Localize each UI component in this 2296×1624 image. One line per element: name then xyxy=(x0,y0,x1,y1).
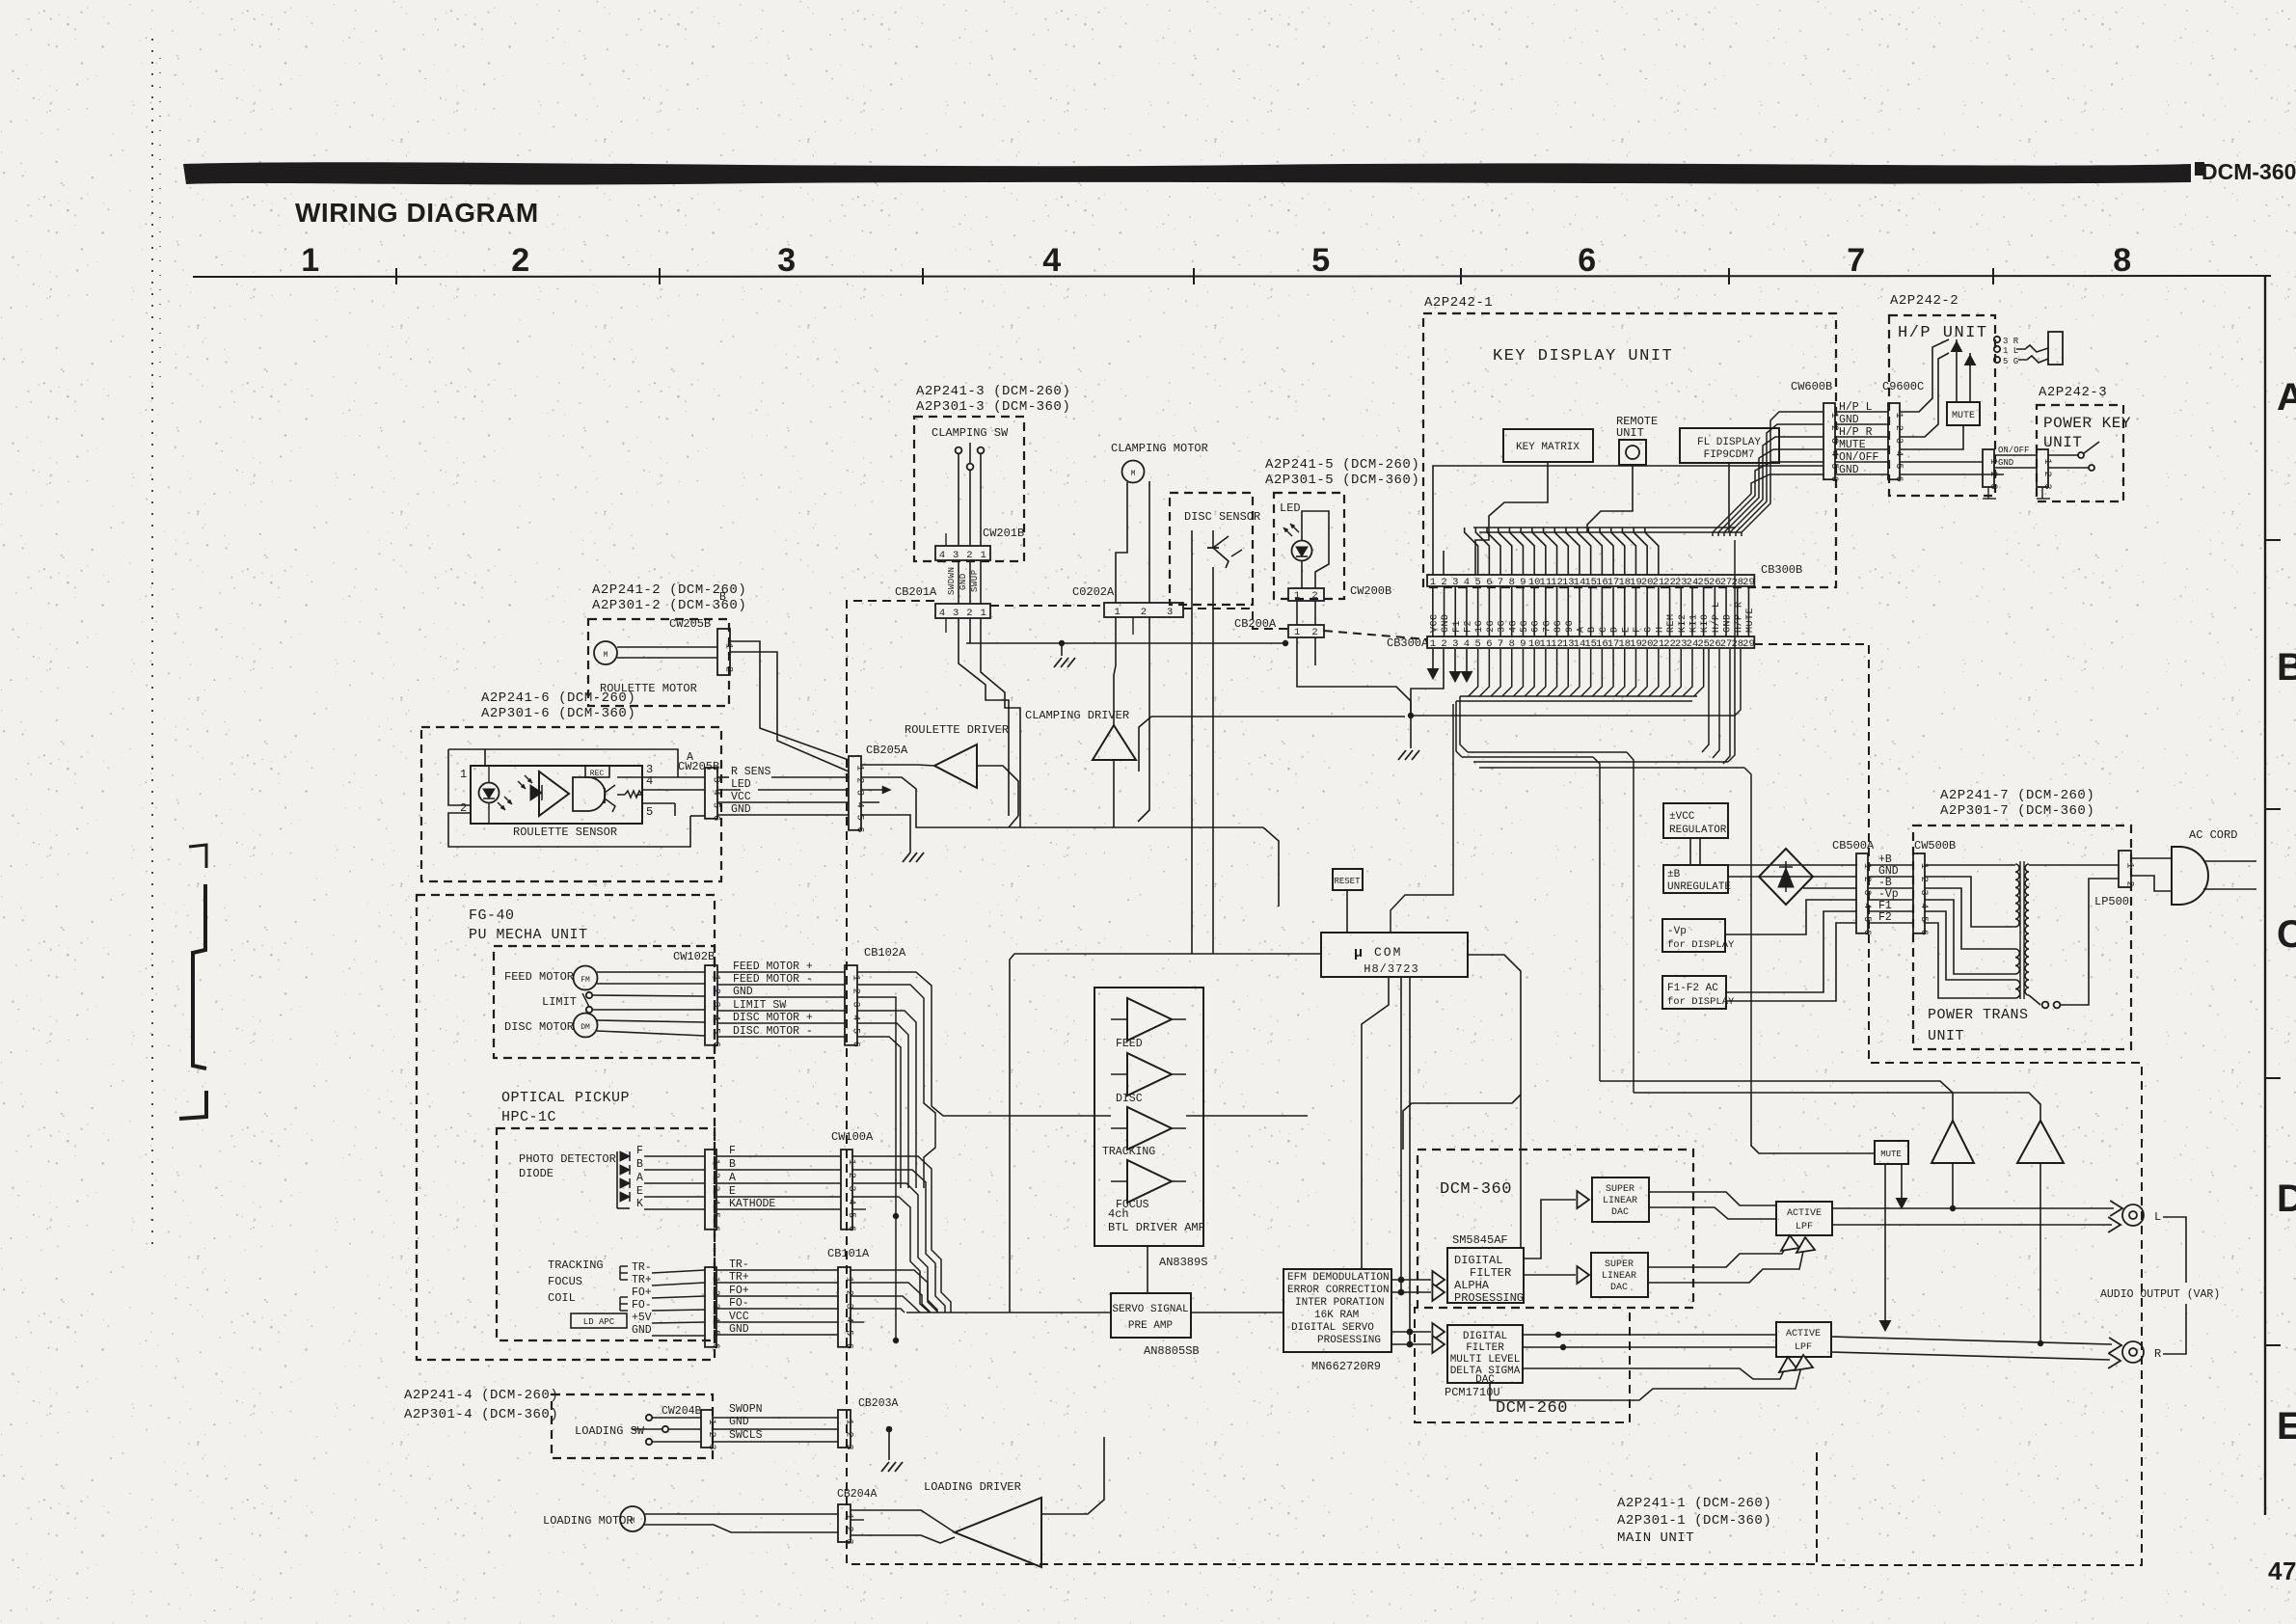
wires delta dac to LPF2 xyxy=(1523,1334,1776,1336)
svg-text:2: 2 xyxy=(1141,607,1147,618)
wires loading driver xyxy=(851,1510,955,1532)
wires CW100A right staircase xyxy=(852,1156,951,1313)
wire mute row to mute block xyxy=(1900,425,1963,449)
svg-text:CW205B: CW205B xyxy=(669,617,711,631)
svg-text:4G: 4G xyxy=(1508,620,1519,633)
svg-text:FL DISPLAY: FL DISPLAY xyxy=(1697,437,1761,448)
svg-text:29: 29 xyxy=(1742,638,1755,650)
wires delta dac lower to LPF2 bottom arrows xyxy=(1523,1362,1788,1379)
long wire y744 left xyxy=(1151,716,1405,717)
svg-text:LED: LED xyxy=(1280,501,1301,515)
disc sensor wires down xyxy=(1191,605,1193,675)
connector CB205A 6-pin xyxy=(849,756,861,830)
connector C9600C xyxy=(1888,403,1900,479)
photo detector diodes xyxy=(620,1151,630,1161)
svg-text:2: 2 xyxy=(460,801,467,815)
svg-text:7: 7 xyxy=(1847,242,1865,279)
svg-text:H8/3723: H8/3723 xyxy=(1364,962,1418,976)
svg-text:REGULATOR: REGULATOR xyxy=(1669,825,1727,836)
svg-text:PRE AMP: PRE AMP xyxy=(1128,1320,1174,1332)
active LPF 2 block xyxy=(1776,1322,1831,1357)
BTL triangles xyxy=(1127,998,1172,1041)
wires roulette driver outputs to bus xyxy=(916,816,1009,827)
svg-text:CB101A: CB101A xyxy=(827,1247,870,1260)
svg-text:B: B xyxy=(729,1158,736,1171)
PU mecha inner box xyxy=(494,946,715,1058)
BTL driver amp block xyxy=(1094,988,1203,1246)
svg-text:ACTIVE: ACTIVE xyxy=(1787,1208,1822,1219)
svg-text:CB102A: CB102A xyxy=(864,946,906,960)
svg-text:A2P242-3: A2P242-3 xyxy=(2039,385,2107,400)
svg-text:for DISPLAY: for DISPLAY xyxy=(1667,996,1735,1008)
roulette sensor outer loop wires xyxy=(485,749,678,771)
connector power key left 3-pin xyxy=(1983,449,1994,487)
feed motor symbol xyxy=(574,966,598,990)
svg-text:2: 2 xyxy=(706,1432,716,1438)
wire branch to DCM-360 left xyxy=(1403,1095,1521,1150)
bus band to right runs xyxy=(1462,756,1593,758)
svg-text:UNREGULATE: UNREGULATE xyxy=(1667,881,1731,893)
svg-text:4: 4 xyxy=(939,608,945,619)
svg-text:1: 1 xyxy=(844,1277,854,1283)
svg-text:6: 6 xyxy=(711,815,721,821)
svg-text:5: 5 xyxy=(1474,638,1480,650)
connector CB201A 4-pin xyxy=(935,604,990,618)
connector CB300B 29-pin row xyxy=(1427,575,1754,586)
DCM-260 dashed box xyxy=(1415,1308,1630,1422)
disc sensor wires down long xyxy=(1191,675,1193,954)
super linear dac 2 block xyxy=(1591,1253,1648,1297)
svg-text:LPF: LPF xyxy=(1796,1222,1813,1232)
pin5 stub CW100A xyxy=(852,1208,866,1210)
connector CB500A 6-pin xyxy=(1856,853,1868,934)
row tick marks xyxy=(2265,539,2281,541)
svg-text:H: H xyxy=(1655,626,1665,633)
roulette motor symbol xyxy=(594,641,617,664)
wire into mute xyxy=(1751,1093,1875,1153)
connector CW100A 6-pin xyxy=(841,1150,852,1230)
svg-text:6: 6 xyxy=(854,826,865,832)
svg-text:FEED: FEED xyxy=(1116,1038,1143,1050)
LED symbol xyxy=(1292,541,1312,561)
loading driver triangle xyxy=(955,1498,1041,1567)
svg-text:7: 7 xyxy=(1498,638,1503,650)
connector CB203A 3-pin xyxy=(838,1410,851,1448)
super linear dac 1 block xyxy=(1592,1177,1649,1222)
svg-text:6: 6 xyxy=(1861,930,1872,935)
svg-text:CW204B: CW204B xyxy=(662,1405,702,1418)
svg-text:R: R xyxy=(2154,1347,2161,1361)
svg-text:1: 1 xyxy=(1987,459,1998,465)
svg-text:A2P301-1 (DCM-360): A2P301-1 (DCM-360) xyxy=(1617,1513,1771,1529)
svg-text:2: 2 xyxy=(711,988,721,994)
svg-text:FILTER: FILTER xyxy=(1470,1266,1511,1280)
wire clamping motor return down xyxy=(1138,675,1149,822)
svg-text:CB204A: CB204A xyxy=(837,1488,878,1501)
wires roulette motor to main unit xyxy=(730,641,849,760)
svg-text:2: 2 xyxy=(710,1290,720,1296)
roulette sensor gate xyxy=(573,777,606,811)
svg-text:3: 3 xyxy=(706,1445,716,1450)
wires uCOM down to decoder data lines xyxy=(1400,977,1402,1292)
svg-text:1: 1 xyxy=(844,1420,854,1425)
svg-text:KEY DISPLAY UNIT: KEY DISPLAY UNIT xyxy=(1493,347,1673,365)
svg-text:C0202A: C0202A xyxy=(1072,585,1115,599)
svg-text:5: 5 xyxy=(710,1212,720,1218)
wires H/P L and R up to jack with arrows xyxy=(1900,339,1949,412)
svg-text:MAIN UNIT: MAIN UNIT xyxy=(1617,1530,1694,1546)
svg-text:3: 3 xyxy=(1918,890,1929,896)
svg-text:CB300B: CB300B xyxy=(1761,563,1802,577)
svg-text:5: 5 xyxy=(1861,916,1872,922)
wire key matrix to bus xyxy=(1475,462,1548,575)
svg-text:VCC: VCC xyxy=(729,1311,749,1323)
mute arrows onto audio lines xyxy=(1884,1164,1886,1323)
svg-text:KI1: KI1 xyxy=(1688,613,1699,633)
svg-text:MULTI LEVEL: MULTI LEVEL xyxy=(1450,1354,1521,1366)
svg-text:TRACKING: TRACKING xyxy=(548,1259,604,1272)
svg-text:2: 2 xyxy=(2041,472,2052,477)
long wire y667 with junctions xyxy=(966,642,1285,644)
uCOM block xyxy=(1321,933,1468,977)
svg-text:5: 5 xyxy=(711,802,721,808)
digital filter alpha block xyxy=(1447,1248,1524,1303)
pin2 stub CB204A xyxy=(851,1519,864,1521)
svg-text:6: 6 xyxy=(1578,242,1596,279)
clamping switch contacts xyxy=(956,447,962,454)
svg-text:UNIT: UNIT xyxy=(1616,426,1644,440)
svg-text:DAC: DAC xyxy=(1475,1374,1495,1386)
svg-text:6: 6 xyxy=(710,1343,720,1349)
svg-text:2: 2 xyxy=(1987,472,1998,477)
arrows below CB300A pins 1 3 4 xyxy=(1432,649,1434,670)
svg-text:3: 3 xyxy=(710,1186,720,1192)
disc sensor unit box xyxy=(1170,493,1253,605)
svg-text:UNIT: UNIT xyxy=(2043,434,2082,451)
svg-text:PROSESSING: PROSESSING xyxy=(1454,1291,1524,1305)
svg-text:A2P301-6 (DCM-360): A2P301-6 (DCM-360) xyxy=(481,706,635,721)
wires motors to CW102B xyxy=(597,971,705,973)
wires EFM to alpha block arrows xyxy=(1391,1279,1431,1281)
svg-text:A2P301-3 (DCM-360): A2P301-3 (DCM-360) xyxy=(916,399,1070,415)
svg-text:PHOTO DETECTOR: PHOTO DETECTOR xyxy=(519,1152,616,1166)
svg-text:5: 5 xyxy=(1311,242,1330,279)
svg-text:FG-40: FG-40 xyxy=(469,907,515,924)
svg-text:A: A xyxy=(1576,626,1586,633)
svg-text:7G: 7G xyxy=(1542,620,1553,633)
H/P unit box xyxy=(1889,315,1995,496)
svg-text:8: 8 xyxy=(1509,638,1515,650)
output amp triangle L xyxy=(1931,1121,1974,1163)
svg-text:OPTICAL PICKUP: OPTICAL PICKUP xyxy=(501,1090,630,1106)
wires CW201B to CB201A xyxy=(958,560,959,604)
svg-text:CW600B: CW600B xyxy=(1791,380,1832,393)
bus under clamping area to right xyxy=(1009,826,1263,828)
svg-text:GND: GND xyxy=(731,803,751,816)
svg-text:+5V: +5V xyxy=(632,1312,652,1324)
svg-text:SWCLS: SWCLS xyxy=(729,1429,763,1442)
wires loading sw to connector xyxy=(652,1417,701,1419)
svg-text:B: B xyxy=(1587,626,1598,633)
wires super dac2 outputs up to LPF1 bottom arrows xyxy=(1648,1240,1790,1267)
connector AC 2-pin xyxy=(2119,851,2131,887)
svg-text:8: 8 xyxy=(2113,242,2131,279)
wires alpha to super dacs xyxy=(1524,1200,1576,1259)
svg-text:KI0: KI0 xyxy=(1700,613,1711,633)
svg-text:FILTER: FILTER xyxy=(1466,1342,1504,1354)
svg-text:HPC-1C: HPC-1C xyxy=(501,1109,556,1125)
svg-text:ERROR CORRECTION: ERROR CORRECTION xyxy=(1287,1285,1390,1296)
svg-text:4: 4 xyxy=(1464,638,1470,650)
svg-text:DIGITAL: DIGITAL xyxy=(1454,1254,1502,1267)
wire servo to EFM xyxy=(1191,1312,1283,1313)
svg-text:±B: ±B xyxy=(1667,869,1681,880)
transformer windings xyxy=(2015,864,2019,927)
wires CW600B to C9600C rows xyxy=(1835,411,1888,413)
svg-text:KATHODE: KATHODE xyxy=(729,1198,775,1210)
svg-text:H/P L: H/P L xyxy=(1711,601,1722,633)
wire LED arrow right xyxy=(861,789,885,791)
svg-text:1: 1 xyxy=(1893,413,1904,419)
coil symbols xyxy=(620,1266,628,1280)
svg-text:A2P241-3 (DCM-260): A2P241-3 (DCM-260) xyxy=(916,384,1070,399)
svg-text:1: 1 xyxy=(301,242,319,279)
svg-text:MUTE: MUTE xyxy=(1880,1150,1902,1159)
bridge rectifier diamond xyxy=(1759,849,1813,905)
svg-text:DISC MOTOR -: DISC MOTOR - xyxy=(733,1025,813,1038)
connector CW500B 6-pin xyxy=(1913,853,1925,934)
wire loading driver output xyxy=(1041,1437,1104,1514)
svg-text:2G: 2G xyxy=(1486,620,1497,633)
svg-text:CW500B: CW500B xyxy=(1914,839,1956,853)
left margin scan artifact xyxy=(189,845,206,868)
wires CW100B to CW100A xyxy=(716,1155,841,1157)
mute block main xyxy=(1875,1141,1908,1164)
transformer primary wires and thermal fuse xyxy=(2029,864,2119,866)
pin5 stub CB101A xyxy=(851,1321,864,1323)
roulette sensor body box xyxy=(471,766,642,824)
svg-text:A2P241-7 (DCM-260): A2P241-7 (DCM-260) xyxy=(1940,788,2094,803)
clamping sw unit box xyxy=(914,417,1024,561)
svg-text:3: 3 xyxy=(1828,438,1839,444)
DCM-360 dashed box xyxy=(1418,1150,1693,1308)
svg-text:3: 3 xyxy=(711,1002,721,1008)
svg-text:DCM-260: DCM-260 xyxy=(1496,1399,1568,1418)
svg-text:CW201B: CW201B xyxy=(983,527,1024,540)
svg-text:CW100A: CW100A xyxy=(831,1130,874,1144)
svg-text:GND: GND xyxy=(1441,613,1451,633)
svg-text:4: 4 xyxy=(1861,903,1872,908)
svg-text:SWUP: SWUP xyxy=(970,569,980,592)
wires CB201A down staircase xyxy=(959,618,1009,816)
pin4 stub below CB201A xyxy=(945,618,947,633)
wires regulator to unregulate xyxy=(1689,838,1691,865)
svg-text:1: 1 xyxy=(980,608,986,619)
REC box xyxy=(585,766,609,777)
wires CB500A to CW500B xyxy=(1868,864,1913,866)
ground symbol roulette xyxy=(903,853,910,862)
junction dots GND vertical xyxy=(894,1214,899,1219)
key display bus horizontals xyxy=(1473,527,1736,528)
svg-text:3: 3 xyxy=(844,1445,854,1450)
svg-text:FEED MOTOR -: FEED MOTOR - xyxy=(733,973,813,986)
svg-text:GND: GND xyxy=(632,1324,652,1337)
svg-text:CB201A: CB201A xyxy=(895,585,937,599)
wire horizontal y989 to uCOM xyxy=(1014,953,1321,955)
connector C0202A 3-pin xyxy=(1104,603,1183,617)
svg-text:GND: GND xyxy=(729,1323,749,1336)
svg-text:1: 1 xyxy=(711,975,721,981)
wires coil to CW101B xyxy=(652,1270,705,1273)
long gnd wire y742 xyxy=(1411,649,1741,716)
svg-text:DAC: DAC xyxy=(1610,1283,1628,1293)
svg-text:CB205A: CB205A xyxy=(866,744,908,757)
svg-text:±VCC: ±VCC xyxy=(1669,811,1695,823)
reset block xyxy=(1333,869,1363,890)
svg-text:MUTE: MUTE xyxy=(1745,608,1756,633)
svg-text:CLAMPING SW: CLAMPING SW xyxy=(932,426,1009,440)
wires sensor to connector xyxy=(642,776,705,778)
LED emission arrows xyxy=(1283,528,1292,536)
svg-text:C: C xyxy=(2277,913,2296,956)
wire reset to uCOM xyxy=(1346,890,1348,933)
svg-text:A2P301-5 (DCM-360): A2P301-5 (DCM-360) xyxy=(1265,473,1419,488)
optical pickup box xyxy=(497,1128,715,1340)
roulette sensor amp triangle xyxy=(539,771,569,816)
svg-text:4: 4 xyxy=(939,550,945,561)
wire C0202A pin1 down to clamping driver xyxy=(1115,617,1117,636)
unregulate block xyxy=(1663,865,1728,893)
pin2 stub below C0202A xyxy=(1132,617,1134,635)
svg-text:6: 6 xyxy=(710,1226,720,1232)
page header black bar xyxy=(183,162,2191,184)
svg-text:F: F xyxy=(636,1145,643,1157)
wires key display fan above CB300B xyxy=(1465,528,1478,575)
connector CW201B 4-pin xyxy=(935,546,990,560)
svg-text:E: E xyxy=(2277,1405,2296,1448)
svg-text:A2P301-4 (DCM-360): A2P301-4 (DCM-360) xyxy=(404,1407,558,1422)
svg-text:PROSESSING: PROSESSING xyxy=(1317,1335,1381,1346)
servo signal pre amp block xyxy=(1111,1293,1191,1338)
svg-text:R SENS: R SENS xyxy=(731,766,771,778)
svg-text:PCM1710U: PCM1710U xyxy=(1445,1386,1500,1399)
LD APC box xyxy=(571,1313,627,1328)
svg-text:FEED MOTOR +: FEED MOTOR + xyxy=(733,961,813,973)
svg-text:SERVO SIGNAL: SERVO SIGNAL xyxy=(1112,1304,1188,1315)
svg-text:LPF: LPF xyxy=(1795,1342,1812,1353)
wires CB101A right staircase xyxy=(851,1270,938,1313)
connector CB102A 6-pin xyxy=(845,965,857,1045)
audio out R connector xyxy=(2122,1341,2144,1363)
svg-text:H/P UNIT: H/P UNIT xyxy=(1898,324,1988,342)
wires roulette driver xyxy=(861,765,934,766)
svg-text:DIODE: DIODE xyxy=(519,1167,554,1180)
svg-text:1: 1 xyxy=(1861,863,1872,869)
power switch symbol xyxy=(2048,454,2078,456)
svg-text:3G: 3G xyxy=(1498,620,1508,633)
svg-text:CB500A: CB500A xyxy=(1832,839,1875,853)
svg-text:C: C xyxy=(1599,626,1609,633)
svg-text:A: A xyxy=(2277,376,2296,419)
power key unit box xyxy=(2037,405,2123,501)
output amp triangle R xyxy=(2017,1121,2064,1163)
-Vp for display block xyxy=(1662,919,1725,952)
svg-text:DCM-360: DCM-360 xyxy=(1440,1180,1512,1199)
wires unregulate to bridge and CB500A xyxy=(1728,864,1856,866)
svg-text:D: D xyxy=(2277,1177,2296,1220)
clamping switch wires down xyxy=(958,453,959,546)
connector CW204B 3-pin xyxy=(701,1410,713,1448)
svg-text:E: E xyxy=(729,1185,736,1198)
LED unit box xyxy=(1274,493,1344,599)
svg-text:A2P241-6 (DCM-260): A2P241-6 (DCM-260) xyxy=(481,690,635,706)
svg-text:1: 1 xyxy=(1294,590,1300,602)
svg-text:2: 2 xyxy=(511,242,529,279)
svg-text:1: 1 xyxy=(1828,413,1839,419)
svg-text:LOADING SW: LOADING SW xyxy=(575,1424,645,1438)
svg-text:1: 1 xyxy=(460,768,467,781)
svg-text:2: 2 xyxy=(844,1432,854,1438)
svg-text:CW200B: CW200B xyxy=(1350,584,1391,598)
digital filter delta sigma block xyxy=(1447,1325,1523,1383)
wire loading gnd to ground xyxy=(888,1429,890,1460)
wires CW204B to CB203A xyxy=(713,1417,838,1419)
svg-text:8G: 8G xyxy=(1553,620,1564,633)
svg-text:COM: COM xyxy=(1374,945,1402,960)
svg-text:5 G: 5 G xyxy=(2003,357,2018,366)
vcc regulator block xyxy=(1663,803,1728,838)
svg-text:M: M xyxy=(1131,470,1136,478)
svg-text:1: 1 xyxy=(851,975,861,981)
svg-text:μ: μ xyxy=(1354,945,1363,961)
svg-text:6G: 6G xyxy=(1531,620,1542,633)
pins 26-28 down to band xyxy=(1702,649,1709,752)
wire uCOM right to DAC xyxy=(1468,955,1521,1248)
wire y1157 through BTL to right xyxy=(1186,1115,1308,1117)
svg-text:TRACKING: TRACKING xyxy=(1102,1146,1155,1158)
wires CB300B to CB300A 29 verticals xyxy=(1432,586,1434,595)
svg-text:DAC: DAC xyxy=(1611,1207,1629,1218)
svg-text:FOCUS: FOCUS xyxy=(548,1275,582,1288)
svg-text:BTL DRIVER AMP: BTL DRIVER AMP xyxy=(1108,1221,1205,1234)
limit switch symbol xyxy=(586,992,592,998)
svg-text:6: 6 xyxy=(844,1343,854,1349)
svg-text:FO-: FO- xyxy=(632,1299,652,1312)
svg-text:VCC: VCC xyxy=(1429,613,1440,633)
wire GND to ground xyxy=(861,815,910,853)
clamping driver wires xyxy=(1113,675,1115,725)
svg-text:COIL: COIL xyxy=(548,1291,576,1305)
svg-text:POWER TRANS: POWER TRANS xyxy=(1928,1007,2029,1023)
svg-text:1: 1 xyxy=(710,1159,720,1165)
key matrix block xyxy=(1503,429,1593,462)
svg-text:4: 4 xyxy=(710,1199,720,1204)
svg-text:LP500: LP500 xyxy=(2094,895,2129,908)
svg-text:CW205B: CW205B xyxy=(678,760,719,773)
loading motor symbol xyxy=(620,1506,645,1531)
svg-text:3: 3 xyxy=(1452,638,1458,650)
amp base wires to audio lines xyxy=(1952,1163,1954,1208)
svg-text:L: L xyxy=(2154,1210,2161,1224)
svg-text:B: B xyxy=(2277,646,2296,689)
svg-text:TR-: TR- xyxy=(729,1259,749,1271)
connector CW101B 6-pin xyxy=(705,1267,716,1347)
audio output bracket xyxy=(2163,1217,2186,1283)
svg-text:AC CORD: AC CORD xyxy=(2189,828,2237,842)
wires diodes to CW100B xyxy=(644,1155,705,1157)
svg-text:5: 5 xyxy=(844,1330,854,1336)
svg-text:9: 9 xyxy=(1520,638,1526,650)
